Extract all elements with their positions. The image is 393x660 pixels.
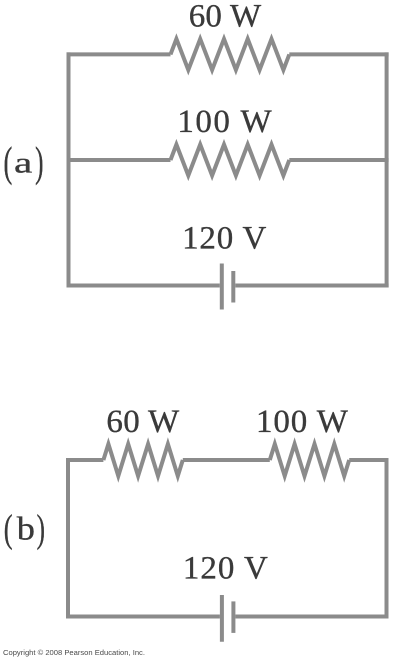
- wire: circuit (b) top segment left of 60 W resistor: [66, 458, 103, 462]
- label: 60 W value (circuit b): [106, 404, 180, 440]
- wire: circuit (a) middle-left segment: [67, 158, 171, 162]
- wire: circuit (b) bottom-left segment: [66, 615, 220, 619]
- wire: circuit (a) top-left segment: [67, 52, 171, 56]
- label: 120 V value (circuit b): [183, 551, 269, 587]
- resistor 100 W (circuit a, middle branch): [171, 145, 290, 176]
- wire: circuit (b) top segment between resistors: [183, 458, 270, 462]
- wire: circuit (a) middle-right segment: [289, 158, 388, 162]
- svg-text:100 W: 100 W: [256, 404, 349, 440]
- svg-text:100 W: 100 W: [177, 104, 273, 140]
- battery 120 V (circuit a): long plate: [220, 264, 224, 310]
- wire: circuit (b) top segment right of 100 W resistor: [349, 458, 388, 462]
- wire: circuit (a) left vertical: [67, 52, 71, 287]
- svg-text:a: a: [14, 146, 32, 179]
- label: 100 W value (circuit a): [177, 104, 273, 140]
- wire: circuit (b) right vertical: [385, 458, 389, 619]
- svg-text:60 W: 60 W: [189, 0, 262, 35]
- svg-text:120 V: 120 V: [183, 551, 269, 587]
- svg-text:Copyright © 2008 Pearson Educa: Copyright © 2008 Pearson Education, Inc.: [3, 648, 145, 657]
- resistor 60 W (circuit b): [103, 444, 182, 476]
- label: copyright notice: [3, 648, 145, 657]
- wire: circuit (a) top-right segment: [289, 52, 388, 56]
- svg-text:): ): [35, 140, 43, 186]
- resistor 100 W (circuit b): [270, 444, 349, 476]
- label: 100 W value (circuit b): [256, 404, 349, 440]
- label: 120 V value (circuit a): [182, 220, 267, 256]
- battery 120 V (circuit a): short plate: [231, 271, 235, 303]
- battery 120 V (circuit b): long plate: [220, 595, 224, 642]
- svg-text:(: (: [4, 139, 13, 186]
- resistor 60 W (circuit a, top branch): [171, 39, 290, 70]
- svg-text:120 V: 120 V: [182, 220, 267, 256]
- svg-text:60 W: 60 W: [106, 404, 180, 440]
- svg-text:b: b: [17, 510, 35, 547]
- wire: circuit (a) bottom-right segment: [235, 284, 388, 288]
- label: (a) sub-figure: [4, 139, 44, 186]
- label: 60 W value (circuit a): [189, 0, 262, 35]
- wire: circuit (b) left vertical: [66, 458, 70, 619]
- svg-text:(: (: [4, 507, 13, 551]
- wire: circuit (b) bottom-right segment: [235, 615, 388, 619]
- label: (b) sub-figure: [4, 507, 45, 551]
- svg-text:): ): [37, 507, 45, 551]
- battery 120 V (circuit b): short plate: [231, 601, 235, 633]
- wire: circuit (a) bottom-left segment: [67, 284, 220, 288]
- wire: circuit (a) right vertical: [385, 52, 389, 287]
